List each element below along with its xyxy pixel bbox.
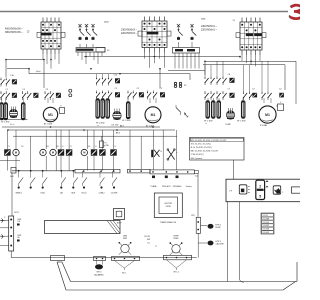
contactor C7	[204, 89, 234, 100]
label HT 1.7kW	[204, 121, 213, 126]
valve EV3	[226, 108, 234, 119]
junction	[60, 186, 62, 188]
connector X13	[150, 170, 194, 174]
label DA	[60, 192, 63, 195]
label LPS	[191, 215, 195, 217]
heater HT6	[106, 98, 109, 118]
sensor level	[1, 217, 7, 223]
svg-text:M6: Optional: M6: Optional	[191, 157, 203, 160]
wire	[55, 130, 57, 149]
node logo	[290, 5, 302, 19]
terminal block X3	[138, 17, 171, 53]
wire	[205, 61, 223, 76]
junction	[90, 68, 92, 70]
breaker Q2 pole 1	[177, 24, 183, 40]
wire	[101, 52, 103, 56]
wire	[93, 156, 95, 171]
wire	[155, 98, 157, 103]
terminal strip X6	[173, 42, 200, 53]
wire	[42, 54, 44, 60]
junction	[60, 170, 62, 172]
wire	[6, 156, 8, 171]
pump drain	[95, 261, 103, 270]
icon blank	[292, 187, 303, 193]
label M5	[88, 146, 90, 148]
wire	[89, 52, 91, 56]
heater HT9	[212, 100, 215, 118]
svg-text:M: M	[42, 151, 44, 155]
junction	[10, 219, 12, 221]
junction	[100, 186, 102, 188]
label (4xx)	[36, 71, 41, 73]
wire	[54, 54, 56, 60]
wire	[45, 156, 47, 171]
contactor C2m	[127, 88, 143, 100]
svg-text:AE 1: AE 1	[120, 124, 124, 127]
svg-text:xx: xx	[97, 125, 99, 127]
switch S2	[151, 150, 162, 157]
motor M1 drum	[145, 107, 161, 123]
terminal block X4	[236, 18, 266, 56]
wire	[140, 136, 142, 169]
wire	[28, 69, 30, 74]
svg-text:X1-X5: X1-X5	[263, 215, 268, 217]
svg-text:380V/60Hz/3N ~: 380V/60Hz/3N ~	[5, 31, 23, 34]
heater HT1	[0, 102, 3, 120]
label NC 1	[122, 273, 126, 275]
wire	[263, 98, 265, 103]
label C2ML2	[98, 193, 104, 195]
svg-text:C2ML2: C2ML2	[98, 193, 104, 195]
switch S3	[167, 149, 177, 161]
contactor C1	[0, 89, 16, 100]
breaker Q1 pole 3	[91, 24, 97, 40]
junction	[5, 59, 7, 61]
heater HT11	[242, 100, 245, 118]
contactor C1b	[96, 88, 120, 99]
wire	[284, 65, 286, 90]
wire	[159, 53, 161, 59]
label (4b4)	[104, 21, 109, 23]
fuse HTR2	[201, 224, 222, 229]
label NIV 0	[97, 272, 102, 274]
svg-text:NC 1: NC 1	[122, 273, 126, 275]
connector tab	[194, 170, 199, 177]
wire	[239, 279, 244, 283]
wire	[153, 130, 155, 170]
junction	[28, 68, 30, 70]
wire	[93, 52, 95, 60]
wire	[233, 160, 235, 179]
table pinout	[261, 213, 274, 234]
wire	[144, 53, 146, 59]
svg-text:HT 1.5kW: HT 1.5kW	[122, 120, 131, 122]
wire	[149, 98, 151, 103]
wire	[6, 59, 44, 61]
connector X12	[128, 169, 151, 173]
switch	[83, 171, 88, 186]
junction	[165, 176, 168, 179]
svg-text:M1: M1	[48, 113, 53, 117]
switch	[19, 171, 24, 186]
icon display	[256, 180, 269, 199]
connector X22	[94, 257, 106, 261]
wire	[189, 74, 191, 80]
wire	[250, 55, 252, 65]
wire	[6, 130, 8, 149]
svg-text:XXXK: XXXK	[166, 206, 172, 208]
junction	[159, 68, 161, 70]
heater HT8	[206, 100, 209, 118]
connector X20	[9, 216, 14, 251]
wire	[205, 60, 296, 62]
wire	[190, 53, 192, 69]
junction	[43, 59, 45, 61]
junction	[10, 227, 12, 229]
capacitor C2	[276, 102, 284, 111]
wire	[203, 64, 285, 66]
wire	[244, 65, 250, 91]
junction	[176, 176, 179, 179]
junction	[10, 235, 12, 237]
label M1b	[146, 125, 154, 128]
contactor coil K6	[110, 149, 116, 155]
enclosure tray	[57, 262, 297, 290]
junction	[113, 186, 115, 188]
pump M5	[81, 149, 87, 155]
contactor C2b	[243, 89, 257, 100]
pump M2	[13, 149, 19, 155]
label EV2	[112, 125, 119, 127]
svg-text:B: N: X5-XXK; X5-XXC): B: N: X5-XXK; X5-XXC)	[191, 147, 212, 149]
heater HT7	[127, 101, 130, 119]
wire	[238, 202, 240, 279]
pump M4	[50, 149, 56, 155]
label M2	[21, 146, 23, 148]
label Y6	[114, 146, 116, 148]
wire	[113, 130, 115, 149]
junction	[119, 73, 121, 75]
wire	[81, 52, 83, 60]
wire	[0, 235, 9, 237]
wire	[218, 98, 220, 103]
label door texts	[144, 236, 157, 248]
svg-text:X1-X5N: X1-X5N	[263, 229, 270, 231]
wire	[129, 130, 131, 169]
wire	[259, 55, 261, 61]
label LP	[230, 191, 233, 193]
wire	[85, 52, 87, 64]
label KM1 LVL	[17, 219, 21, 226]
switch	[61, 171, 66, 186]
svg-text:EV xx: EV xx	[10, 124, 15, 126]
label Y3	[70, 146, 72, 148]
svg-text:TIMER DRACOS: TIMER DRACOS	[160, 221, 177, 224]
switch	[31, 171, 36, 186]
wire	[0, 227, 9, 229]
valve EV2	[113, 109, 121, 120]
wire	[2, 118, 28, 120]
wire	[60, 156, 62, 171]
svg-text:LPS1: LPS1	[14, 212, 19, 214]
wire	[149, 53, 151, 68]
wire	[113, 156, 115, 171]
switch	[43, 171, 48, 186]
wire	[2, 126, 160, 128]
wire	[84, 56, 240, 58]
relay DA1	[10, 168, 16, 178]
wire	[43, 60, 45, 89]
wire	[295, 61, 297, 104]
wire	[213, 98, 215, 103]
wire	[97, 74, 109, 77]
wire	[197, 173, 199, 217]
contactor C2	[22, 89, 38, 100]
wire	[159, 69, 161, 88]
wire	[77, 52, 79, 56]
svg-text:X1-X5X: X1-X5X	[263, 222, 270, 224]
wire	[226, 202, 228, 282]
wire	[174, 53, 176, 69]
junction	[30, 170, 32, 172]
valve EV1	[9, 107, 17, 118]
svg-text:xx: xx	[155, 246, 157, 248]
wire	[87, 156, 89, 171]
label 230V/50Hz/1	[201, 25, 217, 31]
junction	[85, 56, 87, 58]
breaker Q2 pole 2	[190, 24, 196, 40]
svg-text:C2LMH: C2LMH	[111, 193, 118, 195]
wire	[182, 53, 184, 69]
wire	[167, 260, 187, 270]
svg-text:TEST: TEST	[116, 223, 122, 225]
junction	[204, 61, 206, 63]
wire	[176, 130, 178, 170]
junction	[152, 176, 155, 179]
svg-text:NTC 1: NTC 1	[174, 272, 179, 274]
svg-text:M: M	[15, 151, 17, 155]
svg-text:Y2: Y2	[61, 146, 63, 148]
svg-text:220V/60Hz/3 ~: 220V/60Hz/3 ~	[121, 32, 137, 35]
connector X23	[112, 257, 140, 261]
heater HT10	[217, 100, 220, 118]
svg-text:M3: M3	[47, 146, 49, 148]
motor M1 wash	[43, 107, 57, 121]
svg-text:Y1: Y1	[8, 146, 10, 148]
svg-text:a: a	[282, 192, 283, 194]
junction	[42, 170, 44, 172]
wire	[5, 60, 7, 78]
wire	[5, 98, 7, 103]
wire	[101, 156, 103, 171]
wire	[15, 130, 17, 149]
sensor temp	[1, 235, 5, 239]
wire	[198, 53, 200, 69]
svg-text:PMP: PMP	[123, 238, 128, 240]
svg-text:X1-X6X: X1-X6X	[263, 232, 270, 234]
label TIMER DRACOS	[160, 221, 177, 224]
svg-text:2: 2	[259, 184, 261, 188]
svg-text:PRES: PRES	[173, 238, 179, 240]
wire	[45, 130, 47, 149]
svg-text:S-ML: S-ML	[40, 193, 45, 195]
svg-text:IP 44/B4: IP 44/B4	[260, 125, 267, 127]
wire	[60, 130, 62, 149]
wire	[50, 54, 52, 69]
svg-text:HT 1.7kW: HT 1.7kW	[237, 121, 246, 123]
contactor coil K2	[58, 149, 64, 155]
label TEMP	[173, 236, 179, 241]
svg-text:FUSE: FUSE	[216, 227, 222, 229]
svg-text:PLATA: PLATA	[151, 185, 157, 188]
wire	[46, 54, 48, 64]
svg-text:(SM): (SM)	[201, 19, 206, 21]
connector X10	[12, 170, 75, 172]
contactor coil K5	[99, 149, 105, 155]
wire	[154, 53, 156, 64]
svg-text:M: M	[52, 151, 54, 155]
label C2LMH	[111, 193, 118, 195]
label 400V/50Hz/3N	[5, 28, 23, 34]
svg-text:M5: M5	[88, 146, 90, 148]
motor M1 fan	[259, 106, 276, 123]
wire	[164, 53, 166, 68]
wire	[242, 98, 244, 103]
svg-text:Vaakra: Vaakra	[186, 185, 193, 188]
breaker Q1 pole 2	[85, 24, 91, 40]
svg-text:LVL SW: LVL SW	[112, 125, 119, 127]
svg-text:X1-X6N: X1-X6N	[263, 218, 270, 220]
wire	[7, 68, 30, 70]
wire	[107, 98, 109, 103]
label PRG ALTI	[162, 185, 171, 188]
svg-text:AE 4: AE 4	[116, 132, 120, 135]
label (SM)	[201, 19, 206, 21]
pressostat P2	[170, 242, 183, 255]
svg-text:M2: M2	[21, 146, 23, 148]
junction	[83, 186, 85, 188]
fuse F3	[174, 82, 187, 87]
fuse F4	[69, 89, 72, 97]
wire	[29, 73, 190, 75]
svg-text:SEMCL: SEMCL	[15, 193, 22, 195]
label HT 2.7kW	[1, 122, 15, 127]
label M1c	[260, 125, 267, 127]
svg-text:DOOR: DOOR	[144, 236, 150, 238]
wire	[127, 98, 129, 103]
breaker Q1 pole 1	[78, 24, 84, 40]
wire	[102, 98, 104, 103]
contactor C10b	[96, 75, 120, 86]
contactor C8	[204, 74, 234, 85]
svg-text:M1: M1	[151, 113, 156, 117]
wire	[52, 98, 54, 103]
connector X25	[196, 217, 200, 233]
wire	[246, 55, 248, 63]
heater HT3	[22, 102, 25, 120]
terminal strip X5	[76, 44, 105, 52]
wire	[262, 61, 268, 91]
svg-text:Y3: Y3	[70, 146, 72, 148]
wire	[55, 156, 57, 171]
label PRG ANG	[173, 185, 182, 188]
contactor C10	[0, 75, 16, 87]
wire	[115, 261, 135, 271]
switch	[100, 171, 105, 186]
wire	[11, 251, 197, 258]
svg-text:M5: X1-XXK; X1-XXK; X1-XXN; X1: M5: X1-XXK; X1-XXK; X1-XXN; X1-XXY	[191, 140, 227, 142]
contactor C3b	[147, 88, 165, 100]
connector X21	[51, 256, 65, 261]
svg-text:HT 2.7kW: HT 2.7kW	[1, 122, 10, 124]
switch S1	[176, 105, 181, 115]
label Y2	[61, 146, 63, 148]
icon door	[239, 185, 249, 194]
contactor C3c	[261, 89, 283, 100]
heater HT4	[96, 98, 99, 118]
svg-text:PRG ANG: PRG ANG	[173, 185, 182, 188]
contactor C3	[44, 89, 60, 100]
pump M3	[40, 149, 46, 155]
module TIMER	[154, 193, 182, 218]
svg-text:X1-X6P: X1-X6P	[263, 225, 270, 227]
svg-text:Reset: Reset	[82, 192, 87, 195]
label Vaakra	[186, 185, 193, 188]
label F2	[27, 29, 31, 33]
label PLATA	[151, 185, 157, 188]
svg-text:M: M	[83, 151, 85, 155]
svg-text:CALORIF.: CALORIF.	[216, 243, 225, 246]
label S-ML	[40, 193, 45, 195]
wire	[0, 219, 9, 221]
wire	[101, 130, 103, 149]
table notes	[190, 138, 245, 161]
module TEST	[114, 209, 125, 225]
wire	[11, 173, 13, 216]
label Reset	[82, 192, 87, 195]
label NTC 1	[174, 272, 179, 274]
fuse F1	[100, 136, 110, 147]
svg-text:AT 1.5kW: AT 1.5kW	[44, 123, 52, 126]
ground	[184, 112, 188, 118]
label M4	[57, 146, 59, 148]
svg-text:220V/60Hz/1 ~: 220V/60Hz/1 ~	[201, 28, 217, 31]
wire	[58, 54, 60, 64]
label SEMCL	[15, 193, 22, 195]
junction	[18, 170, 20, 172]
junction	[30, 186, 32, 188]
wire	[13, 135, 177, 137]
label Y5	[103, 146, 105, 148]
label DRN PMP	[123, 236, 128, 241]
label HT7	[122, 120, 131, 122]
svg-text:PRG ALTI: PRG ALTI	[162, 185, 171, 188]
junction	[18, 186, 20, 188]
svg-text:5: 5	[259, 195, 261, 199]
junction	[239, 56, 241, 58]
label AQUARED	[94, 274, 104, 277]
svg-text:Mb: X1-XXK; X1-XXN; X1-XXY: Mb: X1-XXK; X1-XXN; X1-XXY	[191, 151, 219, 153]
svg-text:MOTOR: MOTOR	[165, 203, 173, 205]
wire	[1, 98, 3, 103]
wire	[0, 159, 20, 161]
label KM1 BL	[17, 235, 21, 242]
pressostat P1	[119, 242, 132, 255]
svg-text:(4xx): (4xx)	[36, 71, 41, 73]
wire	[239, 57, 241, 59]
wire	[186, 53, 188, 69]
wire	[68, 130, 70, 149]
